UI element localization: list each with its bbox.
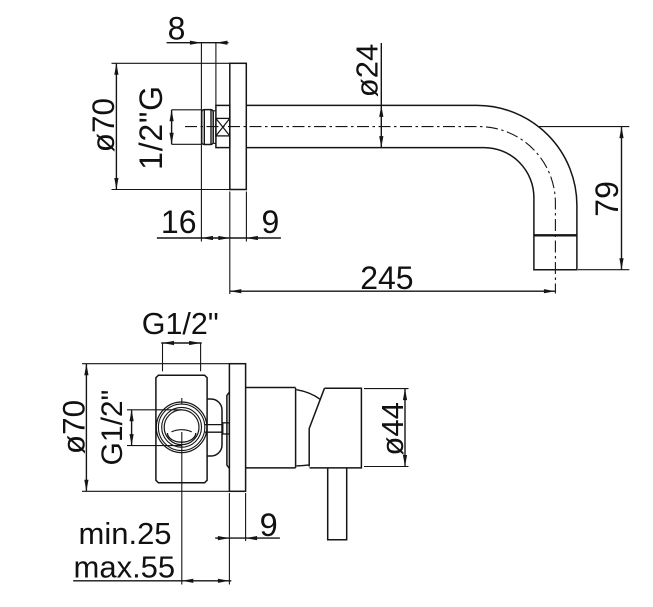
svg-text:min.25: min.25 [79, 516, 172, 551]
svg-text:G1/2": G1/2" [96, 390, 129, 466]
svg-text:max.55: max.55 [74, 549, 176, 584]
svg-text:8: 8 [168, 11, 186, 47]
svg-text:79: 79 [589, 181, 625, 217]
svg-text:ø70: ø70 [55, 400, 91, 454]
svg-text:ø44: ø44 [375, 402, 410, 455]
svg-text:G1/2": G1/2" [142, 307, 219, 341]
svg-text:245: 245 [360, 260, 413, 296]
svg-text:ø70: ø70 [85, 98, 121, 152]
svg-text:ø24: ø24 [350, 44, 385, 97]
svg-text:9: 9 [262, 204, 280, 240]
svg-text:16: 16 [161, 204, 197, 240]
svg-text:1/2"G: 1/2"G [133, 85, 169, 170]
svg-text:9: 9 [260, 507, 278, 543]
